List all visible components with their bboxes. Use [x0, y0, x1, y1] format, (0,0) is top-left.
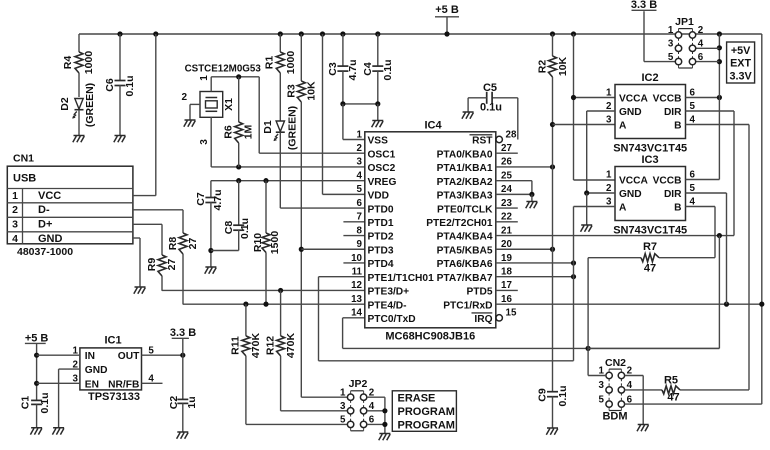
svg-text:470K: 470K	[285, 333, 297, 359]
svg-text:22: 22	[501, 212, 512, 223]
svg-text:PTA1/KBA1: PTA1/KBA1	[437, 163, 493, 174]
svg-text:3: 3	[668, 39, 674, 50]
svg-text:+5V: +5V	[731, 45, 751, 57]
svg-text:A: A	[619, 203, 627, 214]
svg-text:VCCB: VCCB	[653, 94, 682, 105]
svg-text:PTA7/KBA7: PTA7/KBA7	[437, 273, 493, 284]
svg-text:X1: X1	[223, 98, 235, 111]
svg-text:C2: C2	[168, 396, 180, 410]
svg-text:R1: R1	[263, 56, 275, 70]
svg-text:B: B	[674, 121, 681, 132]
svg-text:R5: R5	[664, 375, 678, 387]
svg-text:PTC0/TxD: PTC0/TxD	[368, 314, 416, 325]
svg-text:PTD0: PTD0	[368, 204, 394, 215]
svg-text:2: 2	[606, 183, 612, 194]
svg-text:+5 B: +5 B	[435, 4, 459, 16]
svg-text:PTA2/KBA2: PTA2/KBA2	[437, 177, 493, 188]
svg-text:3: 3	[340, 401, 346, 412]
svg-text:3: 3	[199, 139, 210, 145]
svg-text:0.1u: 0.1u	[557, 385, 569, 406]
svg-text:R12: R12	[264, 336, 276, 355]
svg-text:C5: C5	[483, 82, 497, 94]
svg-text:JP1: JP1	[675, 16, 694, 28]
svg-text:16: 16	[501, 294, 512, 305]
svg-text:C1: C1	[19, 396, 31, 410]
svg-text:0.1u: 0.1u	[239, 218, 251, 239]
svg-text:10K: 10K	[305, 81, 317, 101]
svg-text:1: 1	[199, 75, 210, 81]
svg-text:1M: 1M	[242, 124, 254, 139]
svg-text:PTA3/KBA3: PTA3/KBA3	[437, 191, 493, 202]
svg-text:B: B	[674, 203, 681, 214]
svg-text:11: 11	[352, 267, 363, 278]
svg-text:3.3 B: 3.3 B	[170, 327, 196, 339]
svg-text:PTD4: PTD4	[368, 259, 394, 270]
svg-text:D1: D1	[262, 120, 274, 134]
svg-text:10: 10	[351, 253, 362, 264]
svg-text:PTA0/KBA0: PTA0/KBA0	[437, 149, 493, 160]
svg-text:5: 5	[357, 184, 363, 195]
svg-text:2: 2	[606, 101, 612, 112]
svg-text:1u: 1u	[186, 396, 198, 408]
svg-text:PTD2: PTD2	[368, 232, 394, 243]
svg-text:27: 27	[187, 238, 199, 250]
svg-text:C7: C7	[195, 192, 207, 206]
svg-text:1: 1	[668, 25, 674, 36]
svg-text:VSS: VSS	[368, 136, 389, 147]
svg-text:1500: 1500	[269, 231, 281, 255]
svg-text:4: 4	[690, 196, 696, 207]
svg-text:IC2: IC2	[641, 72, 658, 84]
svg-text:3: 3	[357, 157, 363, 168]
svg-text:24: 24	[501, 184, 512, 195]
svg-text:C6: C6	[104, 78, 116, 92]
svg-text:1: 1	[12, 190, 18, 202]
svg-text:PTD3: PTD3	[368, 245, 394, 256]
svg-text:6: 6	[357, 198, 363, 209]
svg-text:PTA5/KBA5: PTA5/KBA5	[437, 245, 493, 256]
svg-text:DIR: DIR	[664, 107, 682, 118]
svg-text:6: 6	[690, 169, 696, 180]
svg-text:GND: GND	[85, 365, 108, 376]
svg-text:1: 1	[606, 87, 612, 98]
svg-text:VDD: VDD	[368, 191, 390, 202]
svg-text:R6: R6	[222, 125, 234, 139]
svg-text:SN743VC1T45: SN743VC1T45	[613, 143, 687, 155]
svg-text:9: 9	[357, 239, 363, 250]
svg-text:CN2: CN2	[605, 357, 626, 369]
svg-text:0.1u: 0.1u	[480, 102, 502, 114]
svg-text:27: 27	[501, 143, 512, 154]
svg-text:A: A	[619, 121, 627, 132]
svg-text:5: 5	[668, 52, 674, 63]
svg-text:3: 3	[598, 380, 604, 391]
svg-text:5: 5	[340, 415, 346, 426]
svg-text:R2: R2	[536, 60, 548, 74]
svg-text:CN1: CN1	[13, 153, 34, 165]
svg-text:VCCB: VCCB	[653, 176, 682, 187]
svg-text:VCCA: VCCA	[619, 94, 649, 105]
svg-text:1000: 1000	[83, 51, 95, 75]
svg-text:12: 12	[351, 280, 362, 291]
svg-text:EXT: EXT	[730, 58, 751, 70]
svg-text:5: 5	[690, 183, 696, 194]
svg-text:CSTCE12M0G53: CSTCE12M0G53	[185, 64, 262, 75]
svg-text:JP2: JP2	[349, 378, 368, 390]
svg-text:5: 5	[690, 101, 696, 112]
svg-text:47: 47	[644, 263, 656, 275]
svg-text:47: 47	[667, 392, 679, 404]
svg-text:4: 4	[698, 39, 704, 50]
svg-text:1: 1	[606, 169, 612, 180]
svg-text:IN: IN	[85, 351, 95, 362]
svg-text:C9: C9	[536, 388, 548, 402]
svg-text:2: 2	[698, 25, 704, 36]
svg-text:PROGRAM: PROGRAM	[398, 419, 455, 431]
svg-text:19: 19	[501, 253, 512, 264]
svg-text:PTC1/RxD: PTC1/RxD	[443, 300, 492, 311]
svg-text:3.3V: 3.3V	[729, 71, 752, 83]
svg-text:8: 8	[357, 225, 363, 236]
svg-text:D-: D-	[38, 204, 50, 216]
svg-text:PTA6/KBA6: PTA6/KBA6	[437, 259, 493, 270]
svg-text:PTE0/TCLK: PTE0/TCLK	[437, 204, 493, 215]
svg-text:C8: C8	[223, 221, 235, 235]
svg-text:D2: D2	[59, 97, 71, 111]
svg-text:0.1u: 0.1u	[39, 392, 51, 413]
svg-text:PTE2/T2CH01: PTE2/T2CH01	[426, 218, 493, 229]
svg-text:3: 3	[12, 219, 18, 231]
svg-text:10K: 10K	[557, 56, 569, 76]
svg-text:18: 18	[501, 267, 512, 278]
svg-text:PROGRAM: PROGRAM	[398, 406, 455, 418]
svg-text:470K: 470K	[250, 333, 262, 359]
svg-text:28: 28	[506, 129, 517, 140]
svg-text:21: 21	[501, 225, 512, 236]
svg-text:PTA4/KBA4: PTA4/KBA4	[437, 232, 493, 243]
svg-text:IC3: IC3	[641, 154, 658, 166]
svg-text:GND: GND	[619, 189, 642, 200]
svg-text:RST: RST	[472, 136, 493, 147]
svg-text:3: 3	[606, 114, 612, 125]
svg-text:3.3 B: 3.3 B	[631, 0, 657, 11]
svg-text:2: 2	[357, 143, 363, 154]
svg-text:VCCA: VCCA	[619, 176, 649, 187]
svg-text:0.1u: 0.1u	[382, 59, 394, 80]
svg-text:PTE1/T1CH01: PTE1/T1CH01	[368, 273, 435, 284]
svg-text:2: 2	[12, 204, 18, 216]
svg-text:23: 23	[501, 198, 512, 209]
svg-text:OSC1: OSC1	[368, 149, 396, 160]
svg-text:MC68HC908JB16: MC68HC908JB16	[385, 331, 475, 343]
svg-text:D+: D+	[38, 219, 52, 231]
svg-text:3: 3	[606, 196, 612, 207]
svg-text:TPS73133: TPS73133	[88, 391, 140, 403]
svg-text:4: 4	[12, 233, 18, 245]
svg-text:4: 4	[357, 170, 363, 181]
svg-text:4: 4	[690, 114, 696, 125]
svg-text:VCC: VCC	[38, 190, 61, 202]
svg-text:PTD5: PTD5	[466, 287, 492, 298]
svg-text:7: 7	[357, 212, 363, 223]
svg-text:OSC2: OSC2	[368, 163, 396, 174]
svg-text:R7: R7	[643, 241, 657, 253]
svg-text:R9: R9	[146, 258, 158, 272]
svg-text:0.1u: 0.1u	[124, 75, 136, 96]
svg-text:C3: C3	[327, 62, 339, 76]
svg-text:27: 27	[166, 259, 178, 271]
svg-text:EN: EN	[85, 379, 99, 390]
svg-text:C4: C4	[362, 62, 374, 76]
svg-text:1: 1	[340, 387, 346, 398]
svg-text:25: 25	[501, 170, 512, 181]
svg-text:R3: R3	[285, 84, 297, 98]
svg-text:VREG: VREG	[368, 177, 397, 188]
svg-text:14: 14	[351, 308, 362, 319]
svg-text:17: 17	[501, 280, 512, 291]
svg-text:4.7u: 4.7u	[212, 189, 224, 210]
svg-text:4.7u: 4.7u	[347, 59, 359, 80]
svg-text:15: 15	[506, 308, 517, 319]
svg-text:5: 5	[598, 394, 604, 405]
svg-text:PTE3/D+: PTE3/D+	[368, 287, 410, 298]
svg-text:USB: USB	[13, 172, 36, 184]
svg-text:26: 26	[501, 157, 512, 168]
svg-text:R4: R4	[62, 56, 74, 70]
svg-text:1000: 1000	[285, 51, 297, 75]
svg-text:GND: GND	[38, 233, 63, 245]
svg-text:20: 20	[501, 239, 512, 250]
svg-text:OUT: OUT	[118, 351, 140, 362]
svg-text:IC4: IC4	[424, 120, 442, 132]
svg-text:SN743VC1T45: SN743VC1T45	[613, 225, 687, 237]
svg-text:R10: R10	[252, 233, 264, 252]
svg-text:(GREEN): (GREEN)	[84, 83, 96, 127]
svg-text:13: 13	[351, 294, 362, 305]
svg-text:DIR: DIR	[664, 189, 682, 200]
svg-text:R11: R11	[229, 336, 241, 355]
svg-text:6: 6	[698, 52, 704, 63]
svg-text:NR/FB: NR/FB	[108, 379, 139, 390]
svg-text:6: 6	[690, 87, 696, 98]
svg-text:1: 1	[357, 129, 363, 140]
svg-text:PTE4/D-: PTE4/D-	[368, 300, 407, 311]
svg-text:IC1: IC1	[104, 335, 121, 347]
svg-text:ERASE: ERASE	[398, 393, 436, 405]
svg-text:48037-1000: 48037-1000	[17, 246, 73, 258]
svg-text:PTD1: PTD1	[368, 218, 394, 229]
svg-text:(GREEN): (GREEN)	[286, 106, 298, 150]
svg-text:GND: GND	[619, 107, 642, 118]
svg-text:2: 2	[181, 92, 187, 103]
svg-text:R8: R8	[167, 237, 179, 251]
svg-text:BDM: BDM	[602, 411, 627, 423]
svg-text:IRQ: IRQ	[474, 314, 492, 325]
